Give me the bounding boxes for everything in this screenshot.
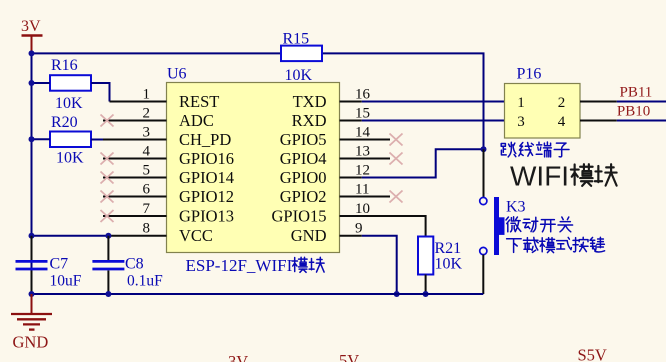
junction R16 rail (29, 80, 35, 86)
svg-text:1: 1 (517, 95, 525, 111)
svg-text:P16: P16 (517, 66, 542, 83)
svg-text:R21: R21 (435, 240, 462, 257)
svg-text:VCC: VCC (179, 226, 213, 245)
svg-text:REST: REST (179, 92, 219, 111)
svg-text:1: 1 (143, 87, 151, 103)
wire K3 bottom to ground rail (482, 255, 484, 294)
svg-text:5V: 5V (339, 351, 359, 362)
wire P16 pin2 to PB11 (580, 101, 617, 103)
svg-text:10K: 10K (285, 67, 313, 84)
pin 4 wire (103, 158, 167, 160)
svg-text:R15: R15 (283, 31, 310, 48)
no-connect X pin 5 (101, 172, 114, 184)
junction VCC C8 (105, 233, 111, 239)
svg-text:3: 3 (143, 125, 151, 141)
svg-text:3V: 3V (21, 18, 41, 35)
wire R16 to pin1 (91, 83, 110, 102)
wire R21 bottom lead (425, 275, 427, 295)
svg-text:K3: K3 (506, 198, 526, 215)
pin 9 wire GND (340, 235, 362, 237)
svg-text:3V: 3V (228, 352, 248, 362)
svg-text:14: 14 (355, 125, 371, 141)
pin 8 wire VCC (32, 235, 109, 237)
left pin names (179, 92, 234, 245)
ground symbol GND (11, 294, 52, 352)
svg-text:WIFI: WIFI (510, 161, 569, 192)
svg-text:4: 4 (143, 144, 151, 160)
svg-text:S5V: S5V (578, 346, 607, 362)
resistor R21 (418, 237, 463, 275)
junction K3 top branch (481, 146, 487, 152)
wire top rail right (R15 to corner, down to K3 junction) (322, 53, 484, 149)
caption jumper terminal (CJK) (501, 142, 569, 157)
no-connect X pin 7 (101, 210, 114, 222)
svg-text:PB11: PB11 (620, 85, 653, 101)
svg-text:TXD: TXD (293, 92, 327, 111)
pin 5 wire (103, 177, 167, 179)
svg-text:5: 5 (143, 163, 151, 179)
switch K3 (480, 197, 526, 255)
svg-text:3: 3 (517, 114, 525, 130)
IC U6 body (167, 66, 340, 253)
no-connect X pin 13 (390, 153, 403, 165)
svg-text:GPIO12: GPIO12 (179, 187, 234, 206)
pin 1 wire (110, 101, 167, 103)
svg-text:R16: R16 (51, 57, 78, 74)
junction pin9 drop (394, 291, 400, 297)
pin 12 wire and branch to K3 (340, 177, 362, 179)
svg-text:GND: GND (13, 333, 49, 352)
power symbol 3V (21, 18, 43, 53)
svg-text:GPIO0: GPIO0 (280, 168, 327, 187)
svg-text:GPIO15: GPIO15 (271, 207, 326, 226)
caption K3 micro switch (CJK) (506, 217, 573, 232)
svg-text:4: 4 (558, 114, 566, 130)
svg-text:9: 9 (355, 221, 363, 237)
svg-text:R20: R20 (51, 114, 78, 131)
no-connect X pin 2 (101, 115, 114, 127)
svg-text:0.1uF: 0.1uF (127, 273, 163, 290)
svg-text:C7: C7 (50, 256, 69, 273)
capacitor C8 (92, 236, 163, 294)
IC caption ESP-12F_WIFI module (186, 256, 325, 275)
pin 2 wire (103, 120, 167, 122)
svg-text:ADC: ADC (179, 111, 214, 130)
svg-text:12: 12 (355, 163, 370, 179)
title WIFI module (510, 161, 617, 192)
right pin names (271, 92, 326, 245)
svg-text:13: 13 (355, 144, 370, 160)
pin 7 wire (103, 215, 167, 217)
svg-text:10K: 10K (435, 256, 463, 273)
svg-text:10K: 10K (56, 150, 84, 167)
svg-text:RXD: RXD (292, 111, 327, 130)
pin 11 wire (340, 196, 391, 198)
no-connect X pin 6 (101, 191, 114, 203)
junction ground rail C8 (105, 291, 111, 297)
svg-text:CH_PD: CH_PD (179, 130, 231, 149)
svg-text:GPIO4: GPIO4 (280, 149, 327, 168)
connector P16 (505, 66, 581, 139)
wire bottom ground rail (32, 293, 484, 295)
junction VCC rail left (29, 233, 35, 239)
svg-text:10K: 10K (55, 95, 83, 112)
wire R20 to pin3 (91, 139, 103, 141)
wire junction to K3 top terminal (483, 149, 485, 197)
resistor R15 (281, 31, 322, 85)
svg-text:10uF: 10uF (50, 273, 82, 290)
pin 15 wire to P16 (340, 120, 362, 122)
svg-text:2: 2 (558, 95, 566, 111)
junction R20 rail (29, 136, 35, 142)
pin 13 wire (340, 158, 391, 160)
wire left power rail (31, 53, 33, 294)
svg-text:ESP-12F_WIFI: ESP-12F_WIFI (186, 256, 293, 275)
no-connect X pin 11 (390, 191, 403, 203)
pin 6 wire (103, 196, 167, 198)
svg-text:8: 8 (143, 221, 151, 237)
svg-text:GPIO2: GPIO2 (280, 187, 327, 206)
svg-text:2: 2 (143, 106, 151, 122)
pin 16 wire to P16 (340, 101, 362, 103)
left pin numbers (143, 87, 151, 237)
svg-text:16: 16 (355, 87, 371, 103)
svg-text:PB10: PB10 (617, 104, 650, 120)
svg-text:GPIO13: GPIO13 (179, 207, 234, 226)
wire R20 left lead (32, 138, 51, 140)
resistor R20 (50, 114, 91, 167)
junction at 3V rail top (29, 50, 35, 56)
junction ground rail C7 (29, 291, 35, 297)
wire R16 left lead (32, 82, 51, 84)
wire top rail left (3V to R15) (32, 52, 282, 54)
pin 14 wire (340, 139, 391, 141)
right pin numbers (355, 87, 371, 237)
wire P16 pin4 to PB10 (580, 120, 617, 122)
svg-text:GPIO16: GPIO16 (179, 149, 234, 168)
svg-text:GND: GND (291, 226, 327, 245)
caption download mode button (CJK) (507, 237, 605, 252)
svg-text:10: 10 (355, 201, 370, 217)
svg-text:GPIO14: GPIO14 (179, 168, 234, 187)
resistor R16 (50, 57, 91, 112)
capacitor C7 (16, 236, 82, 294)
svg-text:11: 11 (355, 182, 369, 198)
svg-text:GPIO5: GPIO5 (280, 130, 327, 149)
svg-text:C8: C8 (125, 256, 144, 273)
svg-text:7: 7 (143, 201, 151, 217)
svg-text:6: 6 (143, 182, 151, 198)
no-connect X pin 14 (390, 134, 403, 146)
junction R21 bottom (423, 291, 429, 297)
svg-text:U6: U6 (167, 66, 187, 83)
svg-text:15: 15 (355, 106, 370, 122)
no-connect X pin 4 (101, 153, 114, 165)
pin 3 wire (103, 139, 167, 141)
pin 10 wire to R21 (340, 216, 426, 237)
